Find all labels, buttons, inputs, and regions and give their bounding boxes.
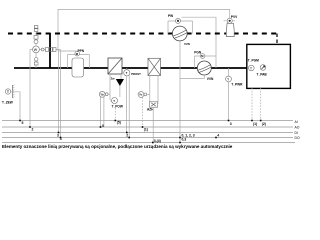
svg-text:W: W (34, 48, 38, 52)
svg-text:(5): (5) (117, 121, 121, 125)
svg-text:T_PWR: T_PWR (231, 82, 243, 86)
svg-text:AI: AI (295, 120, 298, 124)
svg-text:T: T (227, 77, 229, 81)
svg-text:T_PAB: T_PAB (257, 72, 268, 76)
svg-text:4: 4 (60, 137, 62, 141)
svg-text:(1): (1) (253, 122, 257, 126)
svg-text:0: 0 (102, 124, 104, 128)
svg-text:PVV: PVV (231, 15, 238, 19)
svg-text:DI: DI (295, 131, 298, 135)
svg-text:T: T (126, 71, 128, 75)
svg-text:(1): (1) (144, 127, 148, 131)
svg-text:PW: PW (168, 14, 173, 18)
svg-text:T_POW: T_POW (112, 104, 123, 108)
svg-text:5: 5 (22, 121, 24, 125)
svg-text:3,(4): 3,(4) (154, 139, 161, 143)
svg-text:0,3: 0,3 (182, 137, 187, 141)
svg-text:3: 3 (230, 122, 232, 126)
svg-text:PROST: PROST (131, 72, 141, 76)
svg-text:T: T (7, 90, 9, 94)
svg-text:T_PGM: T_PGM (248, 59, 259, 63)
svg-text:2: 2 (126, 133, 128, 137)
svg-text:DO: DO (295, 136, 300, 140)
svg-text:AO: AO (295, 126, 300, 130)
svg-text:Yb: Yb (100, 93, 104, 97)
svg-text:2: 2 (32, 127, 34, 131)
svg-text:T: T (113, 99, 115, 103)
svg-text:4: 4 (217, 133, 219, 137)
svg-text:T: T (250, 66, 252, 70)
svg-text:VVN: VVN (207, 77, 214, 81)
svg-text:Elementy oznaczone linią przer: Elementy oznaczone linią przerywaną są o… (2, 144, 233, 149)
svg-text:(2): (2) (262, 122, 266, 126)
svg-text:PPN: PPN (78, 49, 85, 53)
svg-text:Yo: Yo (139, 93, 143, 97)
svg-text:VVN: VVN (184, 42, 190, 46)
svg-text:3: 3 (57, 134, 59, 138)
svg-text:T_ZEW: T_ZEW (2, 101, 13, 105)
